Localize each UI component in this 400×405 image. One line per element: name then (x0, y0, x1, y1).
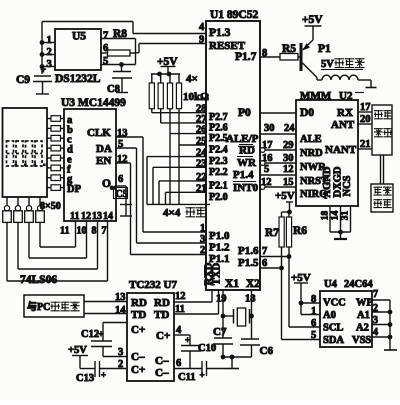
svg-text:A0: A0 (323, 310, 336, 321)
svg-text:4×4: 4×4 (163, 207, 181, 219)
svg-text:C12: C12 (81, 329, 99, 340)
svg-text:C11: C11 (178, 372, 196, 383)
svg-text:NRD: NRD (300, 148, 323, 159)
svg-text:19: 19 (216, 294, 227, 305)
svg-text:2: 2 (47, 47, 52, 58)
svg-text:AGND: AGND (322, 166, 333, 197)
svg-text:17: 17 (360, 102, 371, 113)
svg-text:+: + (99, 329, 104, 339)
svg-text:VCC: VCC (323, 298, 346, 309)
svg-text:C–: C– (155, 367, 169, 379)
svg-text:3: 3 (47, 59, 52, 70)
svg-text:74LS06: 74LS06 (20, 274, 57, 286)
svg-text:C5: C5 (116, 189, 128, 200)
svg-text:7: 7 (102, 226, 107, 237)
svg-text:C+: C+ (156, 330, 170, 342)
svg-text:P1.5: P1.5 (238, 257, 259, 269)
svg-text:DP: DP (67, 184, 82, 195)
svg-text:U1 89C52: U1 89C52 (210, 9, 258, 21)
svg-text:14: 14 (331, 211, 341, 221)
svg-text:30: 30 (264, 123, 275, 134)
svg-text:2: 2 (200, 245, 205, 256)
svg-text:NANT: NANT (325, 144, 357, 156)
svg-text:+5V: +5V (68, 345, 87, 356)
svg-text:11: 11 (60, 226, 69, 237)
svg-text:31: 31 (341, 211, 351, 221)
svg-text:X1: X1 (225, 278, 239, 290)
svg-text:10: 10 (77, 226, 87, 237)
svg-text:EN: EN (96, 155, 111, 167)
svg-text:C+: C+ (131, 324, 145, 336)
svg-text:13: 13 (92, 211, 102, 222)
svg-text:C6: C6 (260, 345, 274, 357)
svg-text:C+: C+ (131, 364, 145, 376)
svg-text:RD: RD (154, 297, 170, 309)
svg-text:C–: C– (131, 351, 145, 363)
svg-text:6: 6 (311, 318, 316, 329)
svg-text:DS1232L: DS1232L (55, 73, 101, 85)
svg-text:5V: 5V (321, 59, 334, 70)
svg-text:TXD: TXD (212, 262, 223, 285)
svg-text:+: + (41, 65, 47, 76)
svg-text:9: 9 (199, 35, 204, 46)
svg-text:X2: X2 (246, 278, 260, 290)
svg-text:21: 21 (360, 139, 371, 150)
svg-text:P1.4: P1.4 (233, 169, 254, 181)
svg-text:6: 6 (176, 358, 181, 369)
svg-text:C8: C8 (107, 84, 120, 95)
svg-text:U3 MC14499: U3 MC14499 (61, 97, 126, 109)
svg-text:26: 26 (196, 125, 207, 136)
svg-text:7: 7 (103, 31, 108, 42)
svg-text:P1.0: P1.0 (209, 230, 230, 242)
svg-text:P1.3: P1.3 (209, 27, 231, 39)
svg-text:23: 23 (196, 158, 207, 169)
svg-text:NCS: NCS (342, 175, 353, 196)
svg-text:ALE: ALE (300, 134, 322, 145)
svg-text:1: 1 (311, 306, 316, 317)
svg-text:12: 12 (117, 154, 128, 165)
svg-text:1: 1 (200, 223, 205, 234)
svg-text:U2: U2 (339, 90, 353, 102)
svg-text:ALE/P: ALE/P (226, 133, 259, 145)
svg-text:RD: RD (239, 145, 255, 157)
svg-text:20: 20 (360, 114, 371, 125)
svg-text:P2.1: P2.1 (209, 180, 228, 191)
svg-text:25: 25 (196, 136, 207, 147)
svg-text:C10: C10 (198, 343, 216, 354)
svg-text:8×50: 8×50 (40, 201, 61, 212)
svg-text:MMM: MMM (300, 90, 332, 102)
svg-text:SDA: SDA (323, 335, 344, 346)
svg-text:24: 24 (284, 123, 295, 134)
svg-text:11: 11 (70, 211, 79, 222)
svg-text:24C64: 24C64 (344, 279, 373, 290)
svg-text:12: 12 (81, 211, 91, 222)
svg-text:TC232 U7: TC232 U7 (129, 279, 177, 291)
svg-text:+: + (200, 370, 205, 380)
svg-text:+5V: +5V (302, 14, 323, 26)
svg-text:R5: R5 (282, 43, 296, 55)
svg-text:1: 1 (47, 35, 52, 46)
svg-text:3: 3 (200, 234, 205, 245)
svg-text:4: 4 (199, 22, 205, 33)
svg-text:12: 12 (283, 164, 294, 175)
svg-text:VSS: VSS (352, 335, 371, 346)
svg-text:P2.4: P2.4 (209, 145, 228, 156)
svg-text:P2.3: P2.3 (209, 156, 228, 167)
svg-text:5: 5 (103, 56, 108, 67)
svg-text:+: + (185, 335, 190, 345)
svg-text:+5V: +5V (291, 272, 311, 284)
svg-text:INT0: INT0 (233, 182, 259, 194)
svg-text:P2.2: P2.2 (209, 167, 228, 178)
svg-text:22: 22 (196, 172, 207, 183)
svg-text:27: 27 (196, 114, 207, 125)
svg-text:6: 6 (118, 174, 123, 185)
svg-text:SCL: SCL (323, 323, 343, 334)
svg-text:A1: A1 (357, 310, 370, 321)
svg-text:ANT: ANT (331, 119, 355, 131)
svg-text:+5V: +5V (275, 190, 295, 202)
svg-text:8: 8 (92, 226, 97, 237)
svg-text:TD: TD (154, 309, 169, 321)
svg-text:C–: C– (155, 355, 169, 367)
svg-text:CLK: CLK (87, 127, 111, 139)
svg-text:P2.5: P2.5 (209, 133, 228, 144)
svg-text:21: 21 (196, 183, 207, 194)
svg-text:7: 7 (373, 289, 378, 300)
svg-text:DA: DA (96, 143, 112, 155)
svg-text:RD: RD (131, 297, 147, 309)
svg-text:P0: P0 (238, 107, 251, 119)
svg-text:U4: U4 (324, 279, 338, 290)
svg-text:18: 18 (245, 294, 256, 305)
svg-text:+: + (101, 370, 106, 380)
svg-text:18: 18 (321, 211, 331, 221)
svg-text:R7: R7 (265, 227, 279, 239)
svg-text:4×: 4× (186, 73, 198, 85)
svg-text:D0: D0 (300, 107, 314, 119)
svg-text:P1.7: P1.7 (235, 51, 257, 63)
svg-text:U5: U5 (72, 31, 86, 43)
svg-text:12: 12 (175, 291, 186, 302)
svg-text:RX: RX (337, 107, 353, 119)
svg-text:WR: WR (237, 157, 257, 169)
svg-text:5: 5 (264, 164, 269, 175)
svg-text:R6: R6 (293, 225, 307, 237)
svg-text:7: 7 (262, 246, 267, 257)
svg-text:C9: C9 (16, 74, 30, 86)
svg-text:14: 14 (103, 211, 113, 222)
svg-text:与PC: 与PC (27, 300, 50, 313)
svg-text:WP: WP (356, 298, 374, 309)
svg-text:5: 5 (311, 330, 316, 341)
svg-text:A2: A2 (356, 323, 369, 334)
svg-text:P1.2: P1.2 (209, 242, 230, 254)
svg-text:P1: P1 (318, 43, 331, 55)
svg-text:14: 14 (115, 305, 126, 316)
svg-text:C7: C7 (213, 326, 227, 338)
svg-text:P2.6: P2.6 (209, 122, 228, 133)
svg-text:P2.0: P2.0 (209, 192, 228, 203)
svg-text:TD: TD (131, 309, 146, 321)
svg-text:C13: C13 (76, 373, 94, 384)
svg-text:13: 13 (117, 128, 128, 139)
svg-text:P1.6: P1.6 (238, 245, 259, 257)
svg-text:5: 5 (118, 139, 123, 150)
